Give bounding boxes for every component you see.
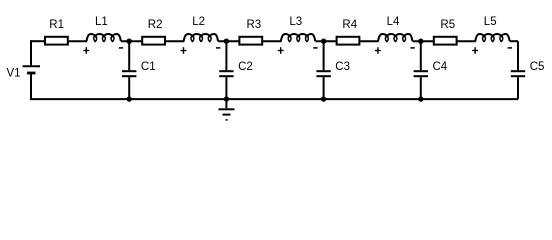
wire: R1 to L1	[67, 40, 87, 42]
resistor R2	[142, 37, 165, 45]
node: junction bottom 4	[418, 96, 423, 101]
svg-text:R5: R5	[440, 19, 455, 31]
svg-text:R3: R3	[247, 19, 262, 31]
resistor R5	[434, 37, 457, 45]
svg-text:R4: R4	[342, 19, 357, 31]
wire: R3 to L3	[261, 40, 281, 42]
polarity - of L4	[410, 47, 414, 49]
svg-text:C5: C5	[530, 61, 545, 73]
wire: bottom rail	[31, 98, 518, 100]
svg-text:C2: C2	[238, 61, 253, 73]
node: junction top 3	[321, 39, 326, 44]
capacitor C3	[316, 41, 330, 99]
wire: R2 to L2	[164, 40, 184, 42]
svg-text:L3: L3	[289, 16, 302, 28]
svg-text:L2: L2	[192, 16, 205, 28]
inductor L4	[378, 34, 412, 42]
polarity + of L4	[375, 47, 381, 54]
wire: L5 to right corner	[510, 40, 518, 42]
wire: top rail, left corner to R1	[31, 40, 46, 42]
svg-text:L5: L5	[484, 16, 497, 28]
svg-text:C3: C3	[335, 61, 350, 73]
polarity - of L1	[119, 47, 123, 49]
wire: left branch lower (V1 to bottom rail)	[30, 73, 32, 100]
capacitor C5	[511, 41, 525, 99]
wire: R4 to L4	[359, 40, 379, 42]
capacitor C4	[414, 41, 428, 99]
wire: R5 to L5	[456, 40, 476, 42]
svg-text:L1: L1	[95, 16, 108, 28]
node: junction top 4	[418, 39, 423, 44]
svg-text:R1: R1	[49, 19, 64, 31]
inductor L1	[87, 34, 121, 42]
battery V1	[23, 66, 41, 73]
capacitor C2	[219, 41, 233, 99]
svg-text:R2: R2	[148, 19, 163, 31]
node: junction bottom 2	[224, 96, 229, 101]
svg-text:V1: V1	[7, 68, 21, 80]
polarity + of L5	[472, 47, 478, 54]
polarity - of L5	[508, 47, 512, 49]
polarity + of L2	[181, 47, 187, 54]
resistor R1	[45, 37, 68, 45]
svg-text:L4: L4	[387, 16, 400, 28]
wire: L3 through node 3 to R4	[315, 40, 337, 42]
node: junction top 1	[127, 39, 132, 44]
svg-text:C4: C4	[433, 61, 448, 73]
wire: L4 through node 4 to R5	[413, 40, 435, 42]
svg-text:C1: C1	[141, 61, 156, 73]
node: junction bottom 1	[127, 96, 132, 101]
node: junction bottom 3	[321, 96, 326, 101]
wire: left branch upper (top rail to V1)	[30, 40, 32, 66]
wire: L1 through node 1 to R2	[121, 40, 143, 42]
resistor R3	[239, 37, 262, 45]
inductor L3	[281, 34, 315, 42]
capacitor C1	[122, 41, 136, 99]
polarity + of L3	[278, 47, 284, 54]
ground	[219, 99, 235, 120]
wire: L2 through node 2 to R3	[218, 40, 240, 42]
polarity - of L3	[313, 47, 317, 49]
polarity - of L2	[216, 47, 220, 49]
node: junction top 2	[224, 39, 229, 44]
inductor L2	[184, 34, 218, 42]
inductor L5	[475, 34, 509, 42]
polarity + of L1	[83, 47, 89, 54]
resistor R4	[337, 37, 360, 45]
